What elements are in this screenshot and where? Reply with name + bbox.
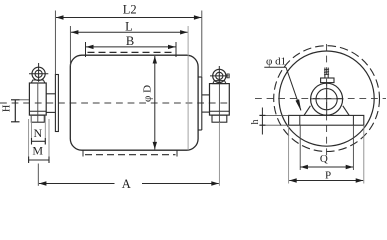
svg-text:φ D: φ D [141, 85, 153, 102]
svg-text:M: M [32, 143, 43, 157]
svg-text:N: N [33, 126, 42, 140]
svg-text:φ d1: φ d1 [266, 56, 286, 68]
svg-text:Q: Q [320, 153, 328, 165]
svg-text:B: B [126, 34, 134, 48]
svg-text:A: A [122, 177, 131, 191]
svg-text:h: h [250, 120, 261, 125]
svg-text:P: P [325, 170, 331, 182]
svg-text:L: L [125, 20, 133, 34]
svg-text:H: H [1, 105, 12, 112]
svg-text:L2: L2 [123, 3, 137, 17]
